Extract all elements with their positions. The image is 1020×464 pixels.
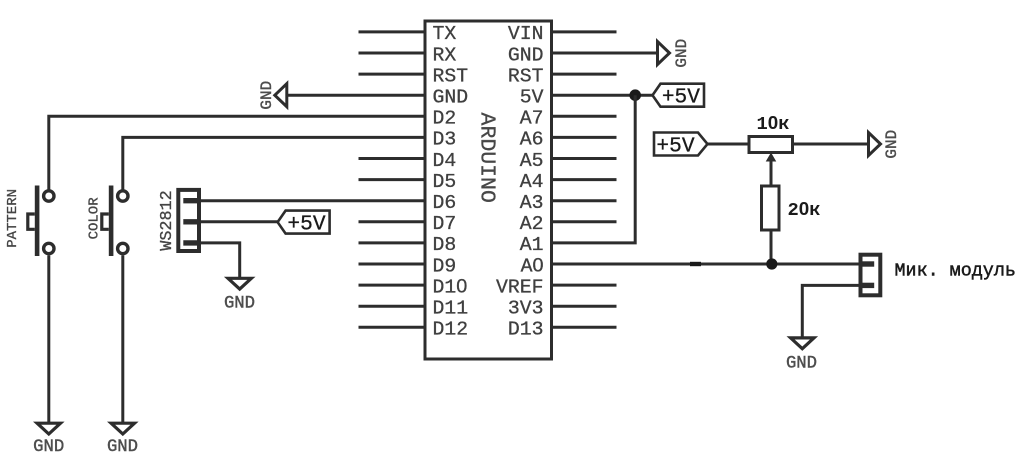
wire +5V to RV1 (707, 143, 749, 146)
power flag +5V (5V pin) (653, 84, 705, 110)
ground flag GND (right pin) (658, 39, 692, 68)
svg-text:A2: A2 (520, 213, 544, 235)
wire RV1 wiper to R1 (770, 158, 773, 186)
svg-text:Мик. модуль: Мик. модуль (895, 260, 1016, 281)
wire A0 (552, 263, 861, 266)
svg-text:A0: A0 (521, 254, 544, 277)
svg-text:20к: 20к (788, 198, 821, 221)
ground flag GND (left pin) (258, 81, 287, 110)
svg-text:D10: D10 (433, 275, 468, 298)
svg-text:GND: GND (224, 294, 255, 313)
svg-text:GND: GND (883, 130, 901, 159)
ground GND (SW2) (107, 423, 138, 457)
junction A0 node (766, 258, 777, 269)
svg-text:A5: A5 (520, 150, 544, 172)
svg-text:GND: GND (33, 438, 64, 457)
wire J1 pin2 to +5V (199, 220, 278, 223)
svg-text:TX: TX (433, 23, 457, 45)
pushbutton SW2 (102, 186, 128, 257)
svg-text:A3: A3 (520, 192, 544, 214)
svg-text:D5: D5 (433, 171, 457, 193)
wire SW2 to ground (121, 255, 124, 423)
svg-text:VREF: VREF (496, 276, 543, 298)
potentiometer RV1 (749, 137, 793, 162)
svg-text:+5V: +5V (287, 213, 325, 237)
ground GND (SW1) (33, 423, 64, 457)
svg-text:GND: GND (107, 438, 138, 457)
wire SW1 to ground (47, 255, 50, 423)
svg-text:+5V: +5V (662, 86, 700, 110)
svg-text:D9: D9 (433, 255, 457, 277)
wire J2 pin2 to ground (802, 285, 859, 338)
svg-text:D8: D8 (433, 234, 457, 256)
svg-text:COLOR: COLOR (87, 197, 103, 240)
junction 5V node (629, 89, 641, 101)
wire D3 to SW2 (123, 137, 425, 190)
pushbutton SW1 (28, 186, 54, 257)
ground flag GND (RV1) (869, 130, 902, 159)
svg-text:D3: D3 (433, 129, 457, 151)
power flag +5V (J1) (278, 211, 330, 237)
svg-text:A7: A7 (520, 108, 544, 130)
wire J1 pin3 to ground (199, 243, 240, 278)
wire 5V to A1 (552, 95, 636, 243)
svg-text:5V: 5V (520, 87, 544, 109)
svg-text:A6: A6 (520, 129, 544, 151)
svg-text:D2: D2 (433, 108, 457, 130)
wire RV1 to ground (793, 143, 869, 146)
svg-text:ARDUINO: ARDUINO (475, 113, 499, 203)
wire J1 pin1 to D6 (199, 199, 425, 202)
svg-text:GND: GND (786, 355, 817, 374)
U1 right pin names (496, 23, 544, 340)
ground GND (J2) (786, 338, 817, 374)
svg-text:+5V: +5V (656, 135, 694, 159)
svg-text:WS2812: WS2812 (158, 190, 177, 250)
wire GND pin right (552, 52, 658, 55)
svg-text:GND: GND (433, 87, 469, 109)
svg-text:GND: GND (673, 39, 691, 68)
svg-text:D12: D12 (433, 319, 469, 341)
svg-text:A4: A4 (520, 171, 544, 193)
net tie mark (690, 262, 701, 266)
svg-text:D11: D11 (433, 298, 469, 320)
ground GND (J1) (224, 278, 255, 313)
wire D2 to SW1 (49, 116, 425, 190)
U1 left pin stubs (359, 32, 426, 327)
svg-text:A1: A1 (520, 234, 544, 256)
svg-text:GND: GND (258, 81, 276, 110)
U1 right pin stubs (552, 32, 617, 327)
svg-text:3V3: 3V3 (508, 298, 544, 320)
wire R1 to A0 node (770, 230, 773, 263)
svg-text:D7: D7 (433, 213, 457, 235)
svg-text:RST: RST (508, 65, 544, 87)
svg-text:10к: 10к (756, 112, 789, 135)
svg-text:VIN: VIN (508, 23, 544, 45)
svg-text:GND: GND (508, 44, 544, 66)
Arduino module U1 body (425, 21, 552, 359)
wire GND pin left (287, 94, 425, 97)
svg-text:PATTERN: PATTERN (5, 189, 21, 248)
connector J1 (178, 190, 200, 251)
resistor R1 (762, 186, 780, 230)
connector J2 (859, 255, 880, 296)
svg-text:D4: D4 (433, 150, 457, 172)
wire 5V pin to +5V flag (552, 94, 653, 97)
svg-text:RST: RST (433, 65, 469, 87)
power flag +5V (RV1) (654, 133, 708, 159)
svg-text:RX: RX (433, 44, 457, 66)
U1 left pin names (433, 23, 469, 340)
svg-text:D13: D13 (508, 319, 544, 341)
svg-text:D6: D6 (433, 192, 457, 214)
